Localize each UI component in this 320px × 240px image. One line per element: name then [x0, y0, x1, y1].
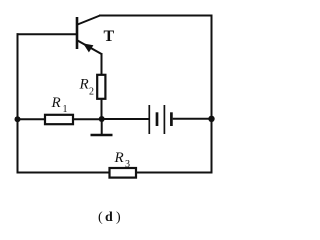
resistor R2 — [97, 75, 105, 99]
resistor R1 — [45, 115, 73, 124]
svg-text:R: R — [79, 77, 89, 93]
label R3 — [114, 150, 131, 170]
label T — [104, 28, 115, 45]
transistor T emitter lead — [78, 41, 102, 55]
transistor T emitter arrow — [83, 43, 93, 52]
resistor R3 — [110, 168, 137, 178]
svg-text:1: 1 — [63, 104, 68, 115]
wire emitter to R2 — [101, 53, 103, 75]
wire battery to right node — [173, 118, 212, 120]
svg-text:): ) — [116, 210, 121, 225]
battery BT plate 4 (short) — [170, 112, 173, 126]
svg-text:T: T — [104, 28, 115, 45]
wire top (collector to right rail) — [99, 15, 213, 17]
node emitter junction dot — [99, 116, 105, 122]
wire left rail — [17, 33, 19, 173]
svg-text:(: ( — [98, 210, 103, 225]
battery BT plate 1 (long) — [148, 105, 150, 134]
svg-text:d: d — [105, 210, 113, 225]
wire node to R1 (middle horizontal, left part) — [18, 118, 102, 120]
svg-text:R: R — [114, 150, 124, 166]
node left junction dot — [15, 116, 21, 122]
svg-text:2: 2 — [89, 87, 94, 98]
svg-text:3: 3 — [125, 159, 130, 170]
battery BT plate 2 (short) — [156, 112, 159, 126]
transistor T base bar — [76, 17, 79, 49]
wire R2 to node — [101, 99, 103, 119]
wire node to battery (middle horizontal, right part) — [102, 118, 150, 120]
battery BT plate 3 (long) — [163, 105, 165, 134]
wire base (top-left horizontal to transistor base) — [17, 33, 77, 35]
ground — [91, 119, 113, 135]
transistor T collector lead — [78, 16, 101, 25]
wire bottom — [17, 172, 213, 174]
label R1 — [51, 95, 68, 115]
label R2 — [79, 77, 95, 98]
caption (d) — [98, 210, 121, 225]
wire right rail — [211, 15, 213, 174]
svg-text:R: R — [51, 95, 61, 111]
node right junction dot — [208, 116, 214, 122]
